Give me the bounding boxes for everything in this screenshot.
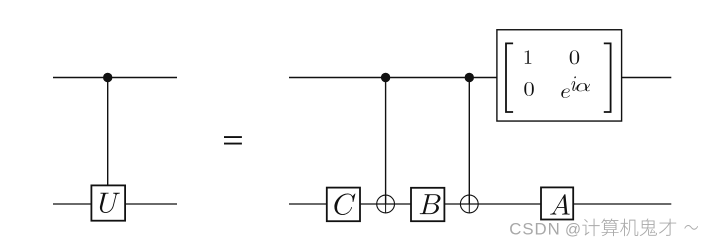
- control dot (left circuit): [103, 73, 112, 82]
- watermark chinese characters (ji suan ji gui cai ~): [582, 219, 698, 237]
- CNOT target 1 (oplus): [377, 195, 395, 213]
- gate B: [411, 188, 444, 221]
- matrix right bracket: [604, 43, 611, 112]
- matrix entry row1 col2: 0: [570, 50, 579, 64]
- matrix entry row2 col2: e^(i alpha): [561, 76, 590, 97]
- top wire right segment (right circuit): [622, 77, 672, 79]
- svg-text:CSDN: CSDN: [509, 219, 559, 238]
- bottom wire left segment (left circuit, target qubit): [53, 203, 91, 205]
- top wire (left circuit, control qubit): [53, 77, 177, 79]
- gate A: [541, 187, 573, 219]
- control line 2 (dot to second CNOT target): [468, 78, 470, 205]
- CNOT target 2 (oplus): [460, 195, 478, 213]
- top wire left segment (right circuit): [289, 77, 497, 79]
- control line 1 (dot to first CNOT target): [385, 78, 387, 205]
- control line from dot to gate U: [107, 78, 109, 187]
- svg-text:@: @: [565, 221, 581, 238]
- bottom wire segment 1 (right circuit): [289, 203, 327, 205]
- bottom wire segment 4 (after A): [573, 203, 671, 205]
- equals sign: [224, 137, 242, 144]
- matrix entry row2 col1: 0: [524, 82, 533, 96]
- matrix entry row1 col1: 1: [525, 50, 532, 63]
- gate C: [327, 188, 360, 222]
- control dot 2 (right circuit): [465, 73, 474, 82]
- control dot 1 (right circuit): [381, 73, 390, 82]
- bottom wire right segment (left circuit): [126, 203, 177, 205]
- phase gate box: matrix diag(1, e^(i alpha)): [497, 30, 622, 121]
- watermark text CSDN @: [509, 219, 581, 238]
- bottom wire segment 3 (between B and A, through second target): [445, 203, 543, 205]
- gate U: [91, 185, 125, 220]
- matrix left bracket: [506, 43, 513, 112]
- bottom wire segment 2 (between C and B, through first target): [360, 203, 412, 205]
